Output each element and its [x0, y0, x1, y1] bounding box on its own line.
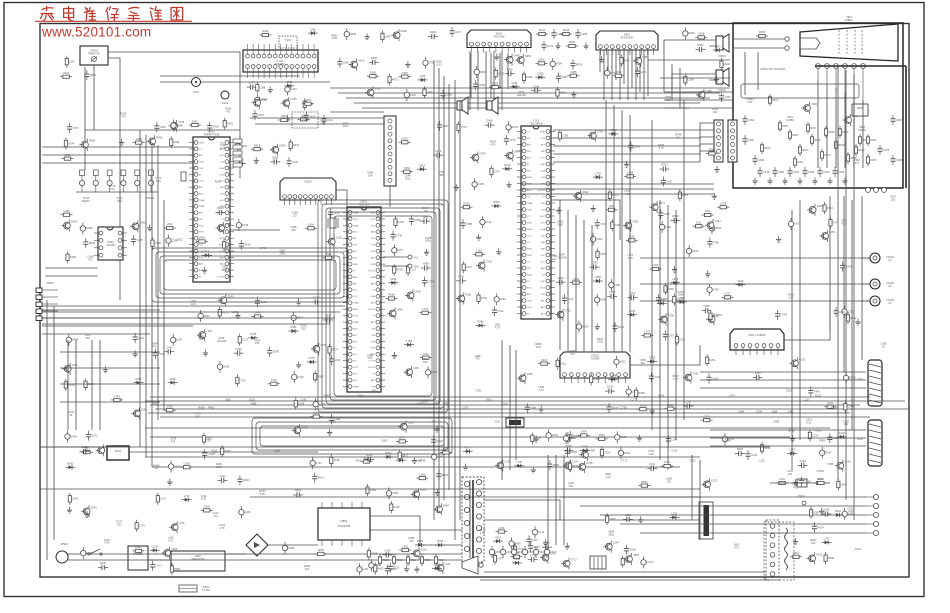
wire	[60, 401, 160, 403]
resistor R977	[768, 94, 779, 106]
resistor R517	[665, 403, 677, 410]
svg-text:L726: L726	[685, 400, 691, 404]
ground	[424, 249, 429, 256]
svg-text:C629: C629	[720, 201, 727, 205]
svg-text:SYN: SYN	[371, 341, 376, 343]
svg-text:D109: D109	[298, 401, 305, 405]
capacitor C461	[833, 307, 845, 317]
svg-text:C371: C371	[156, 564, 163, 568]
diode R581	[289, 325, 299, 333]
capacitor V878	[504, 135, 516, 145]
svg-text:R575: R575	[318, 475, 325, 479]
electrolytic capacitor V830	[509, 538, 522, 550]
deflection yoke L401 DY-H	[868, 360, 882, 406]
resistor L621	[323, 252, 335, 259]
svg-text:L396: L396	[310, 27, 316, 31]
ground	[819, 508, 824, 515]
dashed module N102	[292, 112, 318, 128]
svg-text:V754: V754	[225, 222, 232, 226]
wire	[507, 53, 509, 89]
svg-text:C623: C623	[855, 547, 862, 551]
capacitor D690	[568, 431, 580, 441]
svg-text:V355: V355	[595, 275, 602, 279]
svg-text:R564: R564	[641, 480, 648, 484]
wire	[93, 65, 95, 130]
wire	[330, 111, 384, 113]
svg-text:19BG7: 19BG7	[845, 18, 854, 22]
resistor L882	[61, 153, 73, 160]
wire	[551, 200, 620, 240]
resistor L168	[473, 249, 485, 256]
wire	[42, 333, 150, 335]
electrolytic capacitor C174	[313, 398, 326, 410]
electrolytic capacitor C824	[709, 222, 722, 234]
svg-text:V916: V916	[171, 547, 178, 551]
svg-text:R473: R473	[390, 567, 397, 571]
svg-text:D162: D162	[552, 433, 559, 437]
svg-text:TRAP: TRAP	[353, 224, 359, 227]
wire	[671, 64, 673, 100]
transistor D528	[405, 289, 421, 301]
svg-text:L496: L496	[569, 436, 575, 440]
wire	[139, 130, 141, 447]
resistor L488	[133, 137, 145, 144]
wire	[829, 196, 831, 330]
heater pins	[785, 37, 789, 41]
svg-text:R208: R208	[828, 556, 835, 560]
svg-text:C898: C898	[610, 374, 617, 378]
svg-text:R123: R123	[421, 547, 428, 551]
svg-text:V907: V907	[355, 459, 362, 463]
resistor R820	[378, 554, 389, 566]
svg-text:R290: R290	[430, 30, 437, 34]
svg-text:C624: C624	[805, 479, 812, 483]
ground	[624, 161, 629, 168]
svg-text:V385: V385	[589, 449, 596, 453]
capacitor R290	[428, 30, 438, 39]
resistor C744	[844, 401, 855, 413]
svg-text:L629: L629	[672, 277, 678, 281]
diode C251	[510, 81, 520, 89]
svg-text:V967: V967	[437, 455, 444, 459]
transistor R153	[789, 357, 805, 369]
svg-text:V248: V248	[654, 375, 661, 379]
svg-text:L813: L813	[705, 209, 711, 213]
resistor C720	[513, 543, 524, 555]
line filter T901	[128, 546, 148, 570]
label R348	[675, 132, 682, 139]
electrolytic capacitor L256	[626, 386, 638, 398]
diode VD82	[415, 539, 425, 547]
resistor C550	[401, 166, 413, 173]
capacitor R974	[293, 489, 303, 498]
svg-text:V541: V541	[486, 398, 493, 402]
svg-text:VCO: VCO	[527, 235, 532, 237]
svg-text:TP402: TP402	[816, 469, 824, 473]
svg-text:D571: D571	[659, 201, 666, 205]
ground	[555, 43, 560, 50]
svg-text:L889: L889	[772, 410, 778, 414]
thick crt line	[815, 65, 906, 67]
capacitor C364	[531, 84, 541, 93]
connector XS301	[560, 352, 630, 383]
svg-text:472: 472	[409, 539, 414, 543]
electrolytic capacitor C813	[522, 546, 535, 558]
capacitor R333	[660, 163, 670, 172]
svg-text:D699: D699	[560, 91, 567, 95]
svg-text:V220: V220	[501, 402, 508, 406]
svg-text:R820: R820	[382, 558, 389, 562]
svg-text:C769: C769	[462, 406, 469, 410]
resistor R979	[760, 142, 771, 154]
resistor R564	[638, 480, 650, 487]
svg-text:L767: L767	[668, 333, 674, 337]
svg-text:V144: V144	[68, 141, 75, 145]
diode V541	[713, 44, 723, 52]
svg-text:D387: D387	[813, 511, 820, 515]
label D647	[665, 95, 672, 102]
resistor L544	[624, 170, 636, 177]
wire	[600, 514, 866, 516]
svg-text:XP501: XP501	[46, 281, 54, 285]
resistor L443	[776, 477, 788, 484]
transistor D571	[649, 201, 665, 213]
svg-text:C220: C220	[261, 97, 268, 101]
electrolytic capacitor L626	[494, 293, 506, 305]
resistor D245	[84, 378, 95, 390]
svg-text:100u: 100u	[222, 268, 228, 272]
resistor C702	[236, 375, 247, 387]
svg-text:V145: V145	[136, 238, 143, 242]
svg-text:L449: L449	[514, 54, 520, 58]
wire	[42, 311, 340, 313]
transformer T103	[279, 36, 297, 48]
resistor V570	[596, 248, 606, 260]
wire	[757, 52, 759, 90]
capacitor V585	[460, 219, 472, 229]
svg-text:D261: D261	[709, 358, 716, 362]
svg-text:AFT: AFT	[541, 312, 546, 315]
svg-text:C780: C780	[621, 406, 628, 410]
svg-text:XP901: XP901	[60, 542, 68, 546]
capacitor D563	[84, 70, 96, 80]
diode D248	[248, 332, 258, 340]
svg-text:D352: D352	[480, 70, 487, 74]
wire	[239, 130, 241, 178]
connector strip vertical bottom	[766, 520, 779, 580]
svg-text:10K: 10K	[423, 360, 428, 364]
svg-text:AFT: AFT	[199, 186, 204, 189]
resistor L321	[268, 378, 280, 385]
resistor L437	[641, 330, 653, 337]
svg-text:C744: C744	[848, 405, 855, 409]
wire	[119, 268, 121, 300]
wire	[383, 256, 408, 258]
svg-text:TB1238AN: TB1238AN	[529, 122, 543, 126]
svg-text:C617: C617	[402, 453, 409, 457]
svg-text:V632: V632	[402, 136, 409, 140]
resistor R285	[566, 40, 578, 47]
label V495	[291, 225, 298, 232]
diode R385	[476, 320, 486, 328]
ground	[147, 224, 152, 231]
ground	[556, 207, 561, 214]
diode C898	[608, 374, 618, 382]
svg-text:V465: V465	[814, 390, 821, 394]
svg-text:V644: V644	[846, 264, 853, 268]
ground	[797, 178, 802, 185]
svg-text:L568: L568	[530, 406, 536, 410]
wire	[817, 80, 819, 168]
ground	[296, 361, 301, 368]
transistor D732	[555, 309, 571, 321]
transistor V916	[162, 547, 178, 559]
resistor R578	[64, 379, 75, 391]
resistor R824	[434, 554, 445, 566]
wire	[60, 351, 160, 353]
svg-text:SDA: SDA	[527, 273, 532, 276]
svg-text:L810: L810	[625, 559, 631, 563]
ground	[167, 479, 172, 486]
wire loop crt	[741, 84, 859, 98]
svg-text:C751: C751	[848, 310, 855, 314]
capacitor C440	[164, 345, 174, 354]
svg-text:D946: D946	[672, 214, 679, 218]
svg-text:10K: 10K	[843, 422, 848, 426]
wire	[620, 523, 866, 525]
svg-text:XS501: XS501	[304, 180, 312, 184]
electrolytic capacitor C167	[285, 83, 298, 95]
svg-text:KEY: KEY	[353, 380, 358, 382]
svg-text:V730: V730	[713, 288, 720, 292]
capacitor C192	[286, 157, 298, 167]
IC K101 deflection	[243, 44, 318, 78]
svg-text:MUT: MUT	[353, 328, 358, 330]
svg-text:V410: V410	[358, 59, 365, 63]
svg-text:R987: R987	[782, 124, 789, 128]
svg-text:L686: L686	[173, 140, 179, 144]
connector N201	[467, 30, 531, 53]
svg-text:SDA: SDA	[541, 228, 546, 231]
svg-text:MUT: MUT	[540, 216, 545, 218]
svg-text:472: 472	[842, 221, 847, 225]
svg-text:L621: L621	[326, 252, 332, 256]
svg-text:R948: R948	[724, 62, 731, 66]
svg-text:N801: N801	[340, 519, 348, 523]
diode L791	[822, 537, 832, 545]
svg-text:L990: L990	[615, 283, 621, 287]
svg-text:D954: D954	[581, 430, 588, 434]
svg-text:R964: R964	[797, 160, 804, 164]
transistor L726	[169, 521, 185, 533]
capacitor R976	[570, 60, 582, 70]
svg-text:4.7K: 4.7K	[220, 146, 226, 150]
wire	[580, 505, 866, 507]
ground	[202, 267, 207, 274]
capacitor L767	[663, 331, 675, 341]
SMPS transformer T801	[462, 477, 484, 562]
wire	[485, 51, 487, 110]
svg-text:XS602: XS602	[718, 88, 726, 92]
transistor R490	[391, 29, 407, 41]
resistor L661	[709, 310, 719, 322]
ground	[591, 205, 596, 212]
svg-text:L437: L437	[644, 330, 650, 334]
resistor D873	[566, 432, 577, 444]
svg-text:TDA4605: TDA4605	[338, 524, 351, 528]
svg-text:GND: GND	[540, 164, 545, 166]
capacitor V145	[131, 235, 143, 245]
wire	[700, 379, 866, 381]
svg-text:SCL: SCL	[414, 257, 419, 260]
crystal X301	[328, 218, 338, 228]
svg-text:V736: V736	[396, 233, 403, 237]
svg-text:L499: L499	[435, 149, 441, 153]
wire	[605, 100, 607, 352]
svg-text:L947: L947	[532, 538, 538, 542]
capacitor L766	[505, 67, 515, 76]
svg-text:8.2K: 8.2K	[201, 497, 207, 501]
svg-text:C268: C268	[724, 95, 731, 99]
wire	[861, 196, 863, 360]
svg-text:L344: L344	[72, 363, 78, 367]
svg-text:C339: C339	[184, 461, 191, 465]
wire	[150, 436, 790, 438]
svg-text:D960: D960	[689, 31, 696, 35]
svg-text:D309: D309	[649, 356, 656, 360]
svg-text:C846: C846	[243, 478, 250, 482]
svg-text:472: 472	[88, 257, 93, 261]
electrolytic capacitor D104	[576, 321, 589, 333]
svg-text:C179: C179	[422, 307, 429, 311]
label C612	[806, 418, 813, 425]
wire	[640, 532, 866, 534]
capacitor L398	[623, 513, 633, 522]
svg-text:N401 LA78040: N401 LA78040	[748, 333, 766, 337]
resistor L934	[302, 98, 314, 105]
svg-text:L816: L816	[653, 263, 659, 267]
electrolytic capacitor L654	[425, 366, 437, 378]
svg-text:L513: L513	[498, 309, 504, 313]
svg-text:FBP: FBP	[541, 248, 546, 250]
resistor D339	[522, 71, 533, 83]
svg-text:C918: C918	[763, 170, 770, 174]
svg-text:L372: L372	[455, 30, 461, 34]
svg-text:V763: V763	[199, 236, 206, 240]
diode C658	[432, 563, 442, 571]
svg-text:V621: V621	[794, 222, 801, 226]
svg-text:VDD: VDD	[540, 281, 545, 283]
svg-text:SDA: SDA	[414, 266, 419, 269]
svg-text:D133: D133	[301, 424, 308, 428]
svg-text:C481: C481	[592, 261, 599, 265]
svg-text:V754: V754	[428, 279, 435, 283]
electrolytic capacitor L389	[239, 506, 251, 518]
svg-text:L488: L488	[136, 137, 142, 141]
svg-text:0.01: 0.01	[332, 36, 338, 40]
ground	[412, 457, 417, 464]
svg-text:L299: L299	[416, 459, 422, 463]
svg-text:L735: L735	[516, 460, 522, 464]
resistor V144	[64, 137, 74, 149]
svg-text:V656: V656	[392, 491, 399, 495]
svg-text:D126: D126	[398, 220, 405, 224]
svg-text:C824: C824	[715, 226, 722, 230]
svg-text:2SC: 2SC	[195, 414, 200, 418]
svg-text:C967: C967	[896, 118, 903, 122]
resistor D111	[693, 220, 705, 227]
svg-text:L909: L909	[841, 482, 847, 486]
ground	[539, 406, 544, 413]
ground	[364, 33, 369, 40]
svg-text:R961: R961	[870, 138, 877, 142]
svg-text:R279: R279	[443, 447, 450, 451]
electrolytic capacitor C862	[590, 233, 603, 245]
transistor V754	[216, 222, 232, 234]
ground	[793, 538, 798, 545]
svg-text:C815: C815	[550, 550, 557, 554]
svg-text:V.OUT: V.OUT	[369, 361, 376, 363]
ground	[119, 139, 124, 146]
wire	[791, 210, 793, 470]
svg-text:AGC: AGC	[527, 286, 532, 289]
svg-text:KEY: KEY	[527, 170, 532, 172]
svg-text:R307: R307	[620, 435, 627, 439]
svg-text:10K: 10K	[368, 173, 373, 177]
resistor C637	[613, 70, 625, 77]
ground	[599, 56, 604, 63]
svg-text:AFT: AFT	[199, 154, 204, 157]
svg-text:V585: V585	[466, 222, 473, 226]
wire	[230, 200, 280, 230]
electrolytic capacitor D468	[66, 334, 79, 346]
svg-text:D214: D214	[504, 163, 511, 167]
capacitor D508	[628, 142, 640, 152]
wire	[454, 80, 456, 540]
wire	[607, 50, 609, 76]
resistor R855	[678, 189, 689, 201]
wire	[691, 455, 693, 520]
IC N401 vertical output	[730, 329, 784, 355]
svg-text:R572: R572	[222, 310, 229, 314]
diode D769	[580, 445, 590, 453]
svg-text:R920: R920	[814, 138, 821, 142]
svg-text:R490: R490	[401, 29, 408, 33]
label V443	[68, 410, 75, 417]
resistor C988	[567, 70, 579, 77]
svg-text:TRAP: TRAP	[527, 202, 533, 205]
svg-text:VDD: VDD	[540, 294, 545, 296]
resistor V372	[829, 217, 839, 229]
wire	[683, 100, 685, 420]
svg-text:RGB: RGB	[219, 168, 224, 170]
svg-text:IF/SOUND: IF/SOUND	[621, 36, 634, 40]
svg-text:L982: L982	[788, 410, 794, 414]
coil in connector strip	[785, 528, 788, 570]
electrolytic capacitor L461	[357, 563, 369, 575]
electrolytic capacitor D767	[423, 57, 436, 69]
transistor L452	[404, 366, 420, 378]
IC Y101 TB1238	[517, 119, 555, 320]
svg-text:H.OUT: H.OUT	[538, 190, 545, 192]
svg-text:T103: T103	[285, 38, 291, 42]
svg-text:V600: V600	[213, 125, 220, 129]
transistor C275	[495, 459, 511, 471]
svg-text:2SC: 2SC	[568, 484, 573, 488]
svg-text:D196: D196	[463, 201, 470, 205]
svg-text:V812: V812	[620, 360, 627, 364]
wire	[648, 59, 730, 61]
